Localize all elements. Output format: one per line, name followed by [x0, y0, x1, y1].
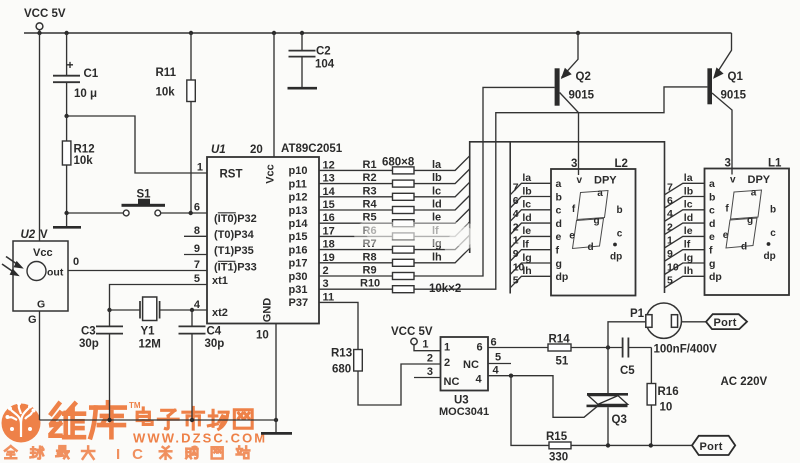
svg-text:2: 2	[323, 265, 329, 277]
svg-text:p10: p10	[289, 165, 308, 177]
svg-text:NC: NC	[463, 359, 479, 371]
capacitor C1	[53, 33, 99, 116]
resistor R1 680	[319, 156, 470, 174]
svg-text:11: 11	[323, 291, 335, 303]
svg-text:100nF/400V: 100nF/400V	[654, 344, 718, 356]
svg-text:4: 4	[194, 299, 201, 311]
svg-text:MOC3041: MOC3041	[439, 406, 489, 418]
svg-text:5: 5	[495, 352, 501, 364]
svg-text:lh: lh	[432, 251, 442, 263]
stub pin 8 (T0)P34	[184, 235, 207, 237]
svg-text:2: 2	[444, 357, 450, 369]
svg-text:lf: lf	[684, 239, 691, 251]
svg-text:VCC 5V: VCC 5V	[391, 326, 433, 338]
svg-text:1: 1	[422, 339, 428, 351]
svg-text:le: le	[432, 212, 441, 224]
svg-text:8: 8	[194, 225, 200, 237]
svg-text:10k: 10k	[74, 155, 94, 167]
capacitor C2 104	[288, 33, 335, 88]
resistor R4 680	[319, 195, 470, 213]
display L2 body DPY	[551, 158, 636, 296]
svg-text:Q3: Q3	[612, 414, 627, 426]
svg-text:g: g	[747, 215, 753, 226]
svg-text:3: 3	[427, 366, 433, 378]
svg-text:dp: dp	[709, 271, 722, 283]
svg-text:g: g	[593, 216, 599, 227]
stub pin 9 (T1)P35	[184, 254, 207, 256]
resistor R8 680	[319, 248, 470, 266]
svg-text:Vcc: Vcc	[33, 247, 53, 259]
resistor R7 680	[319, 235, 470, 253]
svg-text:lb: lb	[522, 185, 531, 197]
svg-text:R9: R9	[363, 265, 377, 277]
svg-text:6: 6	[477, 342, 483, 354]
port symbol (bottom)	[692, 436, 735, 455]
wire U3 pin4 to triac gate	[488, 374, 598, 418]
wire C1/R12 node to RST pin1	[64, 114, 207, 173]
display L1 body DPY	[705, 158, 790, 296]
capacitor C3 30p	[79, 310, 123, 420]
svg-text:R13: R13	[331, 348, 352, 360]
svg-text:dp: dp	[610, 252, 622, 263]
svg-text:6: 6	[194, 202, 200, 214]
svg-text:G: G	[28, 314, 37, 326]
capacitor C4 30p	[179, 310, 225, 420]
svg-text:la: la	[684, 172, 693, 184]
svg-text:P37: P37	[289, 297, 309, 309]
svg-text:lc: lc	[522, 199, 531, 211]
svg-text:10: 10	[660, 402, 673, 414]
display L2 pin wires and numbers	[510, 182, 551, 288]
svg-text:(T1)P35: (T1)P35	[214, 245, 254, 257]
svg-text:R10: R10	[360, 278, 380, 290]
svg-text:le: le	[684, 225, 693, 237]
ground symbol at U1 GND pin 10	[261, 324, 292, 434]
svg-text:0: 0	[73, 256, 79, 268]
svg-text:p15: p15	[289, 231, 308, 243]
svg-text:1: 1	[667, 235, 673, 247]
pin labels U3 right	[488, 337, 511, 377]
resistor R12 10k	[62, 116, 94, 213]
svg-text:lc: lc	[684, 199, 693, 211]
svg-text:IC: IC	[116, 446, 155, 463]
svg-text:L1: L1	[768, 158, 782, 170]
display L1 pin wires and numbers	[665, 182, 705, 288]
wire VCC top rail	[24, 31, 732, 35]
svg-text:f: f	[556, 245, 560, 257]
svg-text:R4: R4	[363, 199, 378, 211]
svg-text:V: V	[40, 229, 48, 241]
svg-text:680: 680	[332, 364, 351, 376]
MCU U1 AT89C2051	[194, 33, 343, 342]
svg-text:13: 13	[323, 173, 335, 185]
svg-text:c: c	[617, 229, 623, 240]
svg-text:20: 20	[250, 144, 263, 156]
svg-text:4: 4	[667, 208, 673, 220]
resistor R6 680	[319, 222, 470, 240]
svg-text:lb: lb	[432, 172, 442, 184]
svg-text:e: e	[723, 230, 729, 241]
svg-text:Q1: Q1	[728, 71, 744, 83]
resistor R10 10k and wire to Q1 base	[319, 87, 707, 293]
svg-text:12: 12	[323, 159, 335, 171]
svg-text:4: 4	[513, 208, 519, 220]
svg-text:R5: R5	[363, 212, 377, 224]
svg-text:c: c	[709, 205, 715, 217]
svg-text:p17: p17	[289, 258, 308, 270]
svg-text:30p: 30p	[205, 338, 225, 350]
svg-text:NC: NC	[444, 376, 460, 388]
svg-text:4: 4	[493, 365, 500, 377]
svg-text:9: 9	[667, 248, 673, 260]
plug P1	[608, 303, 706, 348]
svg-text:3: 3	[725, 158, 731, 170]
svg-text:la: la	[522, 172, 531, 184]
pin number labels U1 right side	[323, 159, 336, 303]
svg-text:(IT1)P33: (IT1)P33	[214, 262, 257, 274]
svg-text:DPY: DPY	[594, 175, 617, 187]
svg-text:c: c	[556, 205, 562, 217]
svg-text:G: G	[37, 299, 45, 311]
svg-text:b: b	[709, 191, 715, 203]
svg-text:7: 7	[194, 259, 200, 271]
svg-text:g: g	[556, 258, 562, 270]
svg-text:51: 51	[556, 356, 569, 368]
svg-text:GND: GND	[262, 298, 274, 323]
svg-text:p11: p11	[289, 178, 307, 190]
svg-text:p12: p12	[289, 192, 308, 204]
wire ground rail bottom	[40, 418, 279, 422]
svg-text:10k: 10k	[156, 87, 176, 99]
resistor R15 330	[511, 376, 692, 463]
resistor R2 680	[319, 169, 470, 187]
segment bus	[470, 142, 665, 294]
svg-text:(IT0)P32: (IT0)P32	[214, 213, 257, 225]
svg-text:Port: Port	[700, 441, 723, 453]
svg-text:S1: S1	[137, 189, 152, 201]
svg-text:RST: RST	[220, 169, 243, 181]
svg-text:a: a	[709, 178, 715, 190]
svg-text:lg: lg	[522, 252, 531, 264]
svg-text:Q2: Q2	[576, 71, 591, 83]
svg-text:ld: ld	[432, 199, 442, 211]
svg-text:330: 330	[549, 452, 568, 463]
svg-text:15: 15	[323, 199, 335, 211]
triac Q3	[587, 348, 629, 446]
display L1 segment net labels	[684, 172, 693, 277]
svg-text:lh: lh	[522, 265, 531, 277]
svg-text:c: c	[770, 228, 776, 239]
resistor R13 680	[319, 302, 441, 405]
svg-text:lg: lg	[684, 252, 693, 264]
svg-text:6: 6	[491, 337, 497, 349]
svg-text:Port: Port	[714, 317, 737, 329]
svg-text:7: 7	[513, 182, 519, 194]
svg-text:xt2: xt2	[212, 307, 228, 319]
svg-text:9015: 9015	[569, 90, 595, 102]
svg-text:9: 9	[513, 248, 519, 260]
svg-text:la: la	[432, 159, 442, 171]
svg-text:30p: 30p	[79, 338, 99, 350]
svg-text:lf: lf	[522, 239, 529, 251]
svg-text:1: 1	[197, 162, 203, 174]
svg-text:R3: R3	[363, 185, 377, 197]
svg-text:9: 9	[194, 243, 200, 255]
svg-text:d: d	[556, 218, 562, 230]
svg-text:dp: dp	[556, 271, 569, 283]
svg-text:lh: lh	[684, 265, 693, 277]
svg-text:19: 19	[323, 252, 335, 264]
svg-text:xt1: xt1	[212, 275, 228, 287]
svg-text:p30: p30	[289, 271, 308, 283]
svg-text:7: 7	[667, 182, 673, 194]
svg-text:14: 14	[323, 186, 336, 198]
svg-text:12M: 12M	[139, 339, 161, 351]
svg-text:10k×2: 10k×2	[429, 283, 461, 295]
svg-text:le: le	[522, 225, 531, 237]
svg-text:10: 10	[256, 330, 269, 342]
power terminal VCC 5V (U3)	[391, 326, 441, 351]
svg-text:WWW.DZSC.COM: WWW.DZSC.COM	[133, 431, 267, 446]
svg-text:TM: TM	[129, 401, 141, 410]
svg-text:e: e	[569, 231, 575, 242]
transistor Q1 9015	[707, 33, 746, 175]
push-button S1	[64, 189, 207, 216]
svg-text:+: +	[67, 58, 74, 72]
svg-text:6: 6	[667, 195, 673, 207]
svg-text:R2: R2	[363, 172, 377, 184]
svg-text:p14: p14	[289, 218, 309, 230]
svg-text:AC 220V: AC 220V	[721, 376, 768, 388]
resistor R5 680	[319, 209, 470, 227]
svg-text:d: d	[587, 242, 593, 253]
svg-text:DPY: DPY	[748, 174, 771, 186]
svg-text:f: f	[709, 245, 713, 257]
svg-text:out: out	[47, 267, 64, 279]
svg-text:v: v	[577, 175, 583, 186]
svg-text:e: e	[556, 231, 562, 243]
ground bar at R12/S1 node	[53, 213, 81, 227]
svg-text:R16: R16	[658, 386, 679, 398]
svg-text:R15: R15	[546, 431, 568, 443]
svg-text:C5: C5	[620, 365, 635, 377]
svg-text:L2: L2	[615, 158, 628, 170]
svg-text:680×8: 680×8	[382, 157, 415, 169]
svg-text:Vcc: Vcc	[265, 164, 277, 184]
svg-text:ld: ld	[522, 212, 531, 224]
optocoupler U3 MOC3041	[414, 337, 489, 418]
svg-text:3: 3	[323, 278, 329, 290]
svg-text:ld: ld	[684, 212, 693, 224]
svg-text:R12: R12	[74, 144, 95, 156]
svg-text:3: 3	[571, 158, 577, 170]
photo sensor U2	[2, 30, 207, 420]
svg-text:a: a	[556, 178, 562, 190]
resistor R11 10k	[156, 33, 196, 213]
svg-text:v: v	[730, 175, 736, 186]
svg-text:2: 2	[667, 221, 673, 233]
svg-text:U2: U2	[21, 229, 36, 241]
svg-text:e: e	[709, 231, 715, 243]
svg-text:1: 1	[513, 235, 519, 247]
svg-text:5: 5	[194, 273, 200, 285]
svg-text:10: 10	[667, 261, 679, 273]
svg-text:C4: C4	[207, 326, 222, 338]
svg-text:AT89C2051: AT89C2051	[281, 143, 343, 155]
svg-text:104: 104	[315, 59, 335, 71]
resistor R9 10k and wire to Q2 base	[319, 87, 555, 279]
svg-text:d: d	[741, 242, 747, 253]
resistor R14 51	[488, 334, 622, 368]
svg-text:18: 18	[323, 239, 335, 251]
svg-text:(T0)P34: (T0)P34	[214, 229, 255, 241]
svg-text:U1: U1	[211, 144, 226, 156]
svg-text:6: 6	[513, 195, 519, 207]
port symbol (top)	[706, 314, 747, 329]
svg-text:a: a	[597, 188, 603, 199]
transistor Q2 9015	[555, 33, 595, 175]
svg-text:b: b	[770, 205, 776, 216]
svg-text:2: 2	[427, 353, 433, 365]
svg-text:d: d	[709, 218, 715, 230]
svg-text:R11: R11	[156, 67, 177, 79]
resistor R16 10	[647, 348, 679, 446]
svg-text:lb: lb	[684, 185, 693, 197]
svg-text:C1: C1	[84, 68, 99, 80]
svg-text:C2: C2	[316, 46, 331, 58]
svg-text:lc: lc	[432, 185, 441, 197]
crystal Y1 12M	[107, 285, 207, 351]
svg-text:16: 16	[323, 212, 335, 224]
svg-text:C3: C3	[81, 326, 96, 338]
display L2 segment net labels	[522, 172, 531, 277]
svg-text:R14: R14	[549, 334, 571, 346]
svg-text:dp: dp	[764, 251, 776, 262]
svg-text:b: b	[616, 205, 622, 216]
svg-text:P1: P1	[630, 308, 645, 320]
svg-text:R1: R1	[363, 159, 377, 171]
power terminal VCC 5V	[24, 8, 66, 30]
svg-text:Y1: Y1	[141, 326, 156, 338]
svg-text:a: a	[751, 188, 757, 199]
svg-text:10 μ: 10 μ	[74, 88, 97, 100]
svg-text:VCC 5V: VCC 5V	[24, 8, 66, 20]
svg-text:p16: p16	[289, 244, 308, 256]
svg-text:9015: 9015	[721, 90, 747, 102]
svg-text:2: 2	[513, 221, 519, 233]
svg-text:5: 5	[513, 275, 519, 287]
svg-text:17: 17	[323, 225, 335, 237]
resistor R3 680	[319, 182, 470, 200]
svg-text:5: 5	[667, 275, 673, 287]
capacitor C5 100nF/400V	[620, 338, 717, 378]
svg-text:4: 4	[476, 374, 483, 386]
svg-text:R8: R8	[363, 251, 377, 263]
svg-text:U3: U3	[454, 395, 469, 407]
svg-text:g: g	[709, 258, 715, 270]
svg-text:p13: p13	[289, 205, 308, 217]
svg-text:b: b	[556, 191, 562, 203]
svg-text:1: 1	[444, 342, 450, 354]
svg-text:p31: p31	[289, 284, 308, 296]
